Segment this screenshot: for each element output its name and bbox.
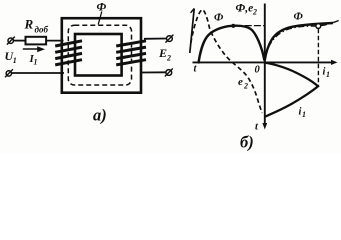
t axis (horizontal) <box>193 61 335 63</box>
svg-text:E: E <box>158 46 167 60</box>
left ordinate axis <box>190 9 194 54</box>
current pulse curve i1(t) <box>265 63 318 117</box>
saturation level line to axis <box>236 25 265 27</box>
flux curve Phi(t) solid left <box>198 26 264 64</box>
svg-text:0: 0 <box>255 65 261 76</box>
svg-text:доб: доб <box>35 25 49 35</box>
svg-text:2: 2 <box>243 82 248 91</box>
dash-dot ideal curve <box>269 20 341 48</box>
wire bottom-right <box>142 71 166 73</box>
wire resistor to core <box>46 40 63 42</box>
wire top-right <box>144 38 166 40</box>
vertical dashed construction line <box>317 29 319 86</box>
svg-text:е: е <box>238 76 243 88</box>
winding W1 (left leg) <box>55 41 82 65</box>
svg-text:1: 1 <box>326 70 330 79</box>
dot marker on flat top <box>231 24 235 28</box>
terminal bottom-left <box>5 69 13 77</box>
core window inner <box>75 34 122 76</box>
arrow t axis down <box>262 123 267 130</box>
terminal top-right <box>165 35 173 43</box>
svg-text:R: R <box>24 17 34 32</box>
svg-text:2: 2 <box>252 8 257 17</box>
svg-text:1: 1 <box>34 58 38 67</box>
wire bottom-left to core <box>12 72 65 74</box>
svg-text:Ф,е: Ф,е <box>236 3 254 15</box>
flux dashed path <box>68 25 131 85</box>
svg-text:а): а) <box>93 106 107 125</box>
current arrow I1 <box>23 48 40 50</box>
terminal bottom-right <box>165 69 173 77</box>
terminal top-left <box>7 37 15 45</box>
Phi pointer <box>98 12 102 25</box>
wire terminal to resistor <box>13 40 25 42</box>
circle marker saturation point <box>316 24 321 29</box>
e2 dashed curve (spike and decay) <box>191 10 262 114</box>
svg-text:Ф: Ф <box>294 11 304 23</box>
resistor Rdob <box>26 37 47 45</box>
svg-text:2: 2 <box>166 54 171 63</box>
magnetization curve Phi(i1) <box>265 23 333 61</box>
transformer outer core <box>62 18 141 93</box>
svg-text:б): б) <box>240 133 254 152</box>
arrow i1 axis right <box>331 60 338 65</box>
svg-text:1: 1 <box>302 110 306 119</box>
axis Phi,e2 (vertical) <box>264 4 266 127</box>
svg-text:1: 1 <box>13 56 17 65</box>
winding W2 (right leg) <box>116 41 146 65</box>
svg-text:Ф: Ф <box>214 12 224 24</box>
